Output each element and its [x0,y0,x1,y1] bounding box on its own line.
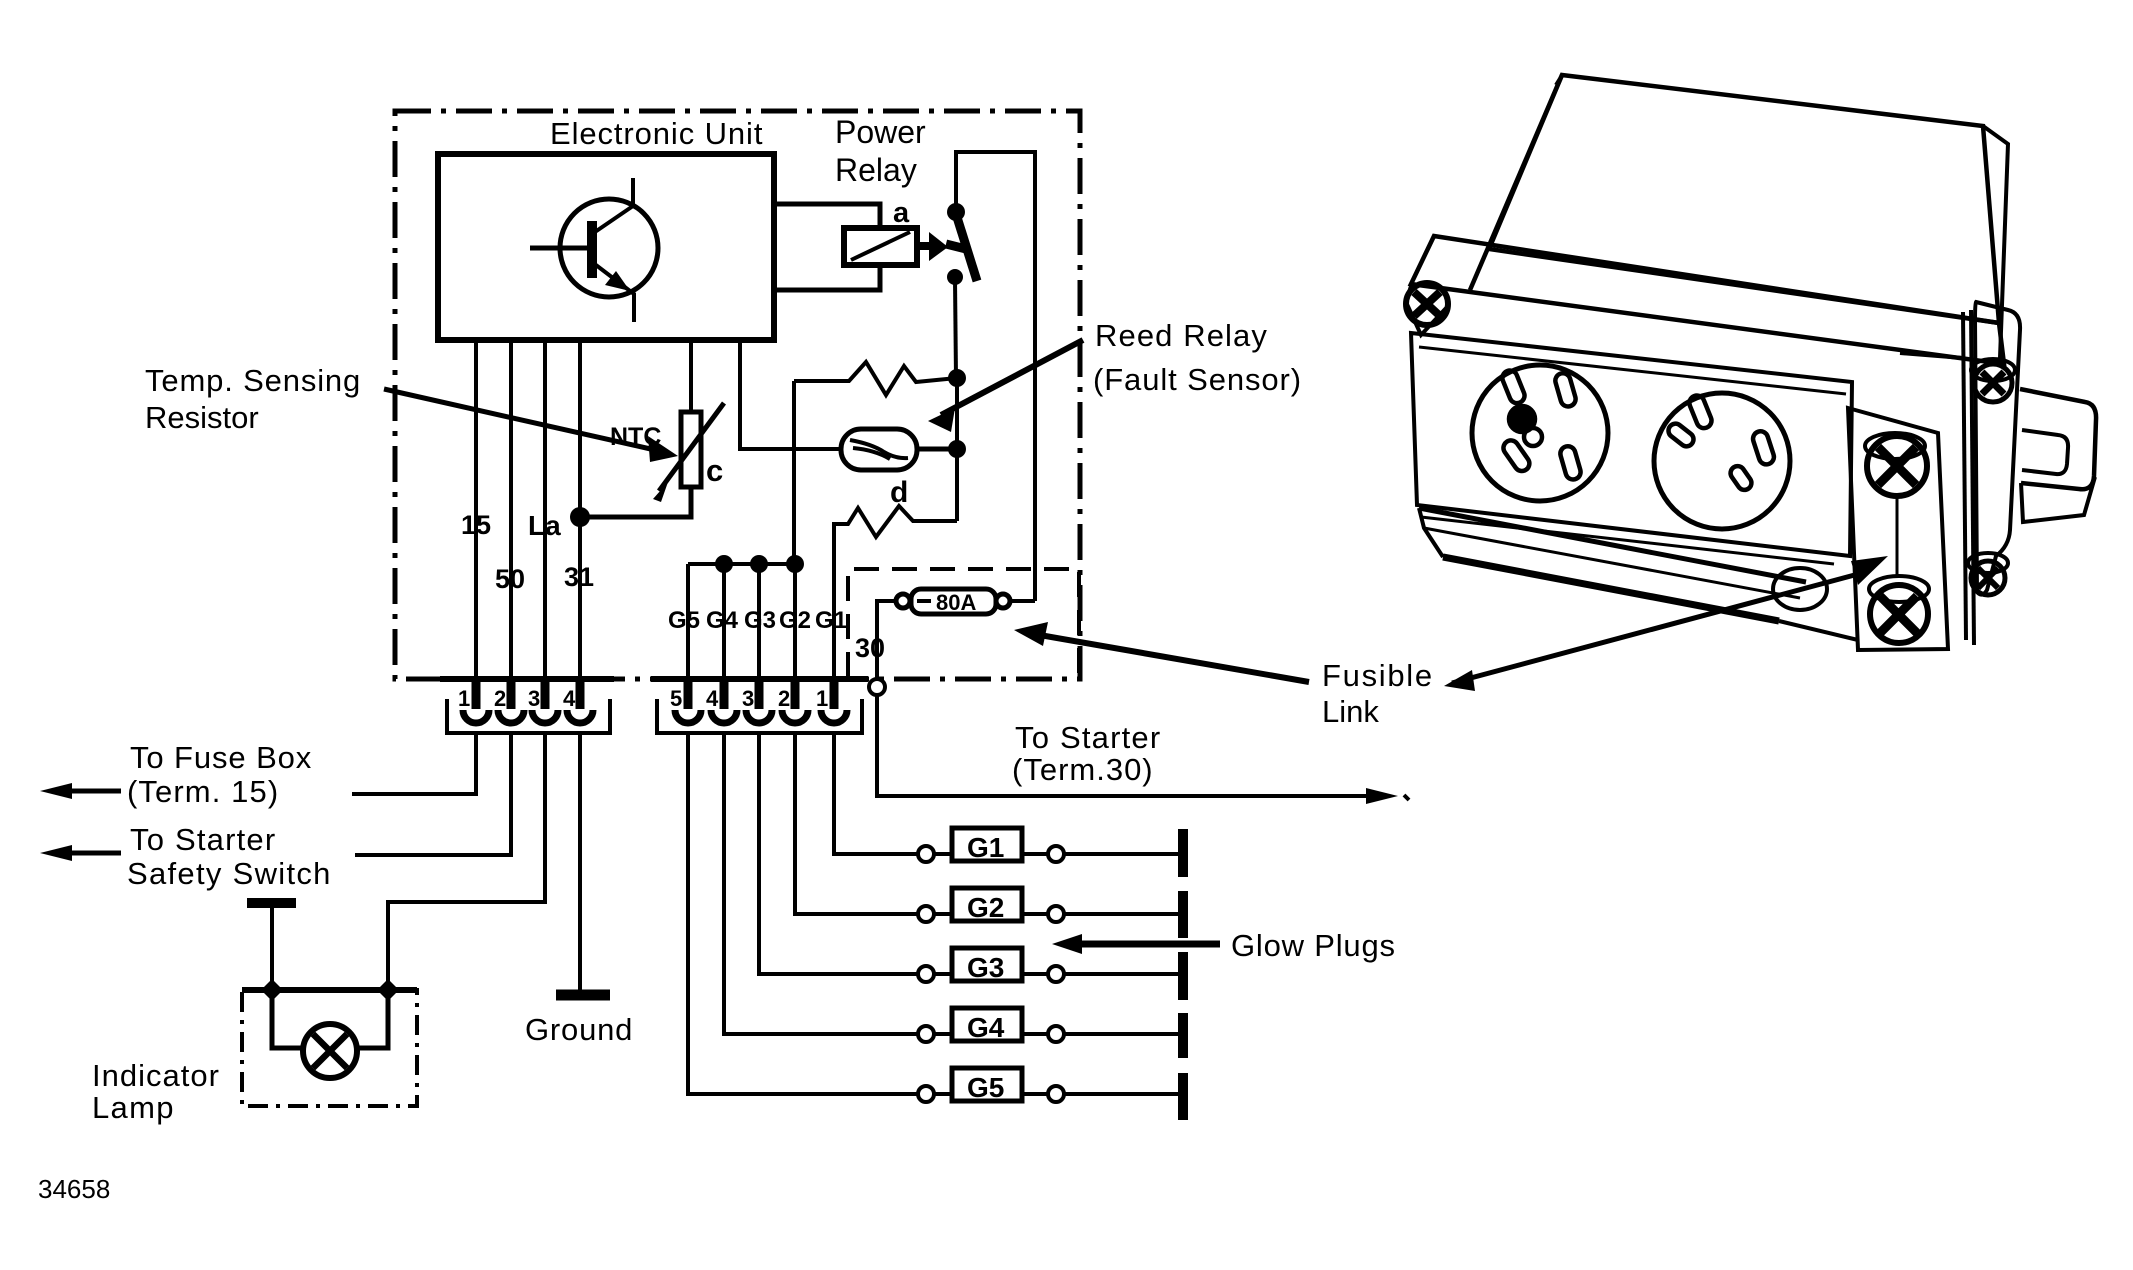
wire U1 to relay coil (upper) [774,204,880,228]
node G3 [750,555,768,573]
svg-text:Glow Plugs: Glow Plugs [1231,928,1396,963]
node reed top [948,369,966,387]
bracket plate with big screws [1848,408,1948,650]
svg-text:31: 31 [564,562,594,592]
relay body rear edges [1963,312,1966,640]
svg-text:To Starter: To Starter [1015,720,1161,755]
relay unit lid rim [1411,236,2004,364]
wire contact top to feed [956,152,1035,601]
wire pin4 to ground [578,733,582,990]
glow plug G5 [688,733,1183,1120]
mounting base plate [1419,508,1806,582]
svg-text:NTC: NTC [610,423,661,451]
connector block 2 [657,699,862,733]
svg-text:2: 2 [778,686,790,711]
svg-text:Power: Power [835,114,926,150]
fuse 80A [896,589,1010,614]
wire NTC to node La [585,487,691,517]
node G4 [715,555,733,573]
connector socket right [1654,393,1790,529]
svg-text:Relay: Relay [835,152,917,188]
pin numbers [458,686,828,711]
svg-text:(Term.30): (Term.30) [1012,752,1154,787]
svg-text:G4: G4 [967,1012,1005,1043]
svg-text:To Fuse Box: To Fuse Box [130,740,312,775]
wire G2 down [793,564,797,679]
svg-text:5: 5 [670,686,682,711]
wire G3 down [757,564,761,679]
wire fuse right to relay feed [1010,599,1035,603]
transistor Q1 [530,178,658,322]
wire pin2 to starter safety switch [355,733,511,855]
relay coil a [844,228,917,265]
svg-text:(Term. 15): (Term. 15) [127,774,279,809]
svg-text:Indicator: Indicator [92,1058,220,1093]
wire fuse left to term 30 [877,601,896,679]
screw big bottom [1869,576,1929,602]
svg-text:4: 4 [563,686,576,711]
screw small top right [1971,359,2015,381]
wire terminal 15 [474,340,478,679]
wire G4 down [722,564,726,679]
screw small bottom right [1968,553,2008,573]
washer at fusible link point [1773,568,1827,610]
svg-text:G5: G5 [967,1072,1004,1103]
svg-text:Safety Switch: Safety Switch [127,856,332,891]
svg-text:To Starter: To Starter [130,822,276,857]
wire U1 to relay coil (lower) [774,265,880,290]
glow plug G2 [795,733,1183,938]
wire contact bottom to reed node [955,280,956,378]
wire term30 to starter [877,695,1378,796]
svg-text:G2: G2 [779,607,811,634]
arrow fusible link to fuse [1034,634,1309,682]
relay contact lever [947,203,965,221]
wire terminal La lamp [543,340,547,679]
indicator lamp dash-dot box [242,990,417,1106]
amplifier module box U1 [438,154,774,340]
wire pin1 to fuse box [352,733,476,794]
svg-text:3: 3 [742,686,754,711]
wire terminal 50 [509,340,513,679]
svg-text:(Fault Sensor): (Fault Sensor) [1093,362,1302,397]
wire terminal 31 [578,340,582,679]
svg-text:G4: G4 [706,607,739,634]
svg-text:a: a [893,197,910,229]
relay unit lid top face [1489,75,1999,323]
svg-text:30: 30 [855,633,885,663]
svg-text:Lamp: Lamp [92,1090,175,1125]
node La [570,507,590,527]
SCHEMATIC_LEFT [1406,75,2096,650]
wire G5 down [686,564,690,679]
svg-text:50: 50 [495,564,525,594]
glow plug G4 [724,733,1183,1058]
svg-text:Ground: Ground [525,1012,633,1047]
svg-text:2: 2 [494,686,506,711]
svg-text:G3: G3 [967,952,1004,983]
svg-text:Temp. Sensing: Temp. Sensing [145,363,361,398]
ground symbol [556,990,610,1001]
svg-text:Fusible: Fusible [1322,658,1434,693]
svg-text:34658: 34658 [38,1174,110,1204]
svg-text:Electronic Unit: Electronic Unit [550,116,763,151]
glow plug G1 [834,733,1183,877]
relay armature actuator arrow [917,242,929,250]
wire capsule to node [917,447,957,452]
wire bar to lamp [270,906,274,990]
wire pin3 to indicator lamp [388,733,545,990]
lamp L1 [272,990,305,1048]
svg-text:Resistor: Resistor [145,400,259,435]
svg-text:G1: G1 [967,832,1004,863]
svg-text:80A: 80A [936,590,976,615]
socket right pin slots [1666,393,1776,492]
terminal 30 circle [869,679,885,695]
screw top-left [1406,283,1448,325]
node lamp left [261,979,283,1001]
connector socket left [1472,365,1608,501]
arrow fusible link to relay screw [1452,573,1862,683]
svg-text:1: 1 [816,686,828,711]
supply terminal bar of indicator lamp [247,898,296,908]
fusible link dashed enclosure [848,569,1079,677]
svg-text:3: 3 [528,686,540,711]
relay unit lid back right edge [1983,126,2008,358]
svg-text:c: c [706,453,723,488]
svg-text:G2: G2 [967,892,1004,923]
connector pins group1 [476,679,580,709]
reed switch capsule d [841,429,917,470]
relay body front face [1411,333,1852,556]
node lamp right [377,979,399,1001]
wire reed vertical [955,378,959,521]
relay unit lid left edge [1470,75,1562,290]
rear mounting strip with small screws [1975,302,2020,595]
wire U1 to reed capsule [740,340,843,449]
svg-text:G3: G3 [744,607,776,634]
socket left pin slots [1500,368,1582,481]
G bus wire [688,562,795,566]
terminal tab right [2020,389,2096,489]
svg-text:4: 4 [706,686,719,711]
svg-text:1: 1 [458,686,470,711]
labels G5 G4 G3 G2 G1 [668,607,847,634]
svg-text:15: 15 [461,510,491,540]
svg-text:Link: Link [1322,694,1379,729]
wire G1 down [832,564,836,679]
node reed bottom [948,440,966,458]
node G2 [786,555,804,573]
wire G2 riser [792,381,796,564]
resistor reed coil upper [794,362,957,395]
electronic unit dash-dot enclosure [395,111,1080,679]
svg-text:Reed Relay: Reed Relay [1095,318,1268,353]
svg-text:G1: G1 [815,607,847,634]
glow plug G3 [759,733,1183,1000]
thermistor c (NTC) [689,340,693,412]
resistor reed coil lower [834,506,957,564]
screw big middle [1865,433,1925,459]
connector block 1 [447,699,610,733]
svg-text:G5: G5 [668,607,700,634]
solid border over connectors [440,676,614,682]
connector pins group2 [688,679,834,709]
